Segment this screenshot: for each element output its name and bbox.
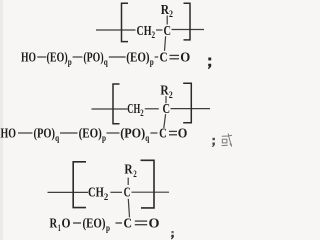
wire dash L1d (155, 56, 159, 58)
svg-text:C: C (163, 101, 171, 116)
label R2 S1 (161, 2, 174, 19)
bracket close S1 (184, 3, 191, 40)
label CH2 S1 (137, 23, 156, 40)
label CH2 S2 (127, 101, 144, 118)
svg-text:C: C (124, 185, 131, 200)
svg-text:q: q (104, 57, 108, 67)
wire R2-C bond S1 (166, 16, 168, 25)
wire C-right bond S3 (132, 191, 170, 193)
label R2 S2 (160, 83, 173, 100)
label semicolon L2 (213, 138, 215, 140)
svg-text:(EO): (EO) (47, 50, 68, 66)
wire dash L1b (73, 56, 83, 58)
svg-text:CH: CH (137, 23, 152, 38)
wire C-down bond S2 (164, 114, 166, 128)
svg-text:p: p (150, 57, 154, 67)
svg-text:C: C (164, 23, 172, 38)
wire CH2-C bond S2 (145, 108, 159, 110)
label R2 S3 (124, 161, 137, 179)
wire dash L1a (37, 56, 46, 58)
wire R2-C bond S3 (127, 178, 129, 185)
wire double bond L2 (169, 130, 177, 132)
label semicolon L1 (208, 58, 211, 61)
svg-text:p: p (106, 223, 110, 233)
svg-text:p: p (68, 57, 72, 67)
svg-text:CH: CH (88, 185, 104, 200)
wire dash L1c (109, 56, 126, 58)
wire dash L2a (18, 132, 33, 134)
wire double bond L1 (170, 54, 180, 56)
svg-text:2: 2 (152, 30, 156, 40)
svg-text:HO: HO (21, 50, 36, 65)
svg-text:C: C (159, 126, 167, 141)
svg-text:2: 2 (169, 9, 173, 19)
svg-text:(EO): (EO) (83, 216, 106, 232)
svg-text:R: R (124, 161, 132, 176)
wire dash L3a (73, 222, 81, 224)
svg-text:O: O (149, 216, 160, 231)
svg-text:R: R (50, 216, 58, 231)
wire dash L2b (60, 132, 78, 134)
svg-text:HO: HO (1, 126, 17, 141)
wire C-down bond S3 (128, 199, 129, 218)
svg-text:R: R (161, 2, 169, 17)
label semicolon L3 (171, 231, 173, 233)
wire C-right bond S1 (172, 29, 205, 31)
wire dash L2c (107, 132, 120, 134)
bracket open S1 (122, 3, 129, 41)
bracket close S2 (183, 83, 191, 123)
svg-text:R: R (160, 83, 168, 98)
left edge scan band (0, 0, 3, 240)
svg-text:O: O (180, 50, 190, 65)
svg-text:q: q (145, 133, 149, 143)
svg-text:(EO): (EO) (79, 126, 102, 142)
svg-text:C: C (160, 50, 168, 65)
bracket open S2 (113, 84, 120, 124)
wire double bond L3 (135, 220, 147, 222)
svg-text:(PO): (PO) (83, 50, 103, 66)
wire lead bond S1 (96, 29, 136, 31)
svg-text:(EO): (EO) (126, 50, 149, 66)
wire C-right bond S2 (171, 108, 211, 110)
svg-text:2: 2 (104, 192, 109, 202)
svg-text:(PO): (PO) (120, 126, 145, 142)
svg-text:p: p (102, 133, 106, 143)
wire lead bond S2 (92, 108, 128, 110)
wire CH2-C bond S1 (156, 29, 163, 31)
wire dash L2d (150, 132, 157, 134)
label CH2 S3 (88, 185, 109, 202)
bracket open S3 (73, 162, 86, 208)
wire lead bond S3 (48, 191, 89, 193)
wire C-down bond S1 (165, 36, 166, 51)
wire dash L3b (116, 222, 123, 224)
svg-text:O: O (178, 126, 188, 141)
wire R2-C bond S2 (165, 96, 167, 103)
svg-text:CH: CH (127, 101, 140, 116)
svg-text:2: 2 (133, 169, 137, 179)
bracket close S3 (141, 160, 155, 208)
svg-text:q: q (55, 133, 59, 143)
svg-text:C: C (124, 216, 133, 231)
wire CH2-C bond S3 (110, 191, 122, 193)
svg-text:2: 2 (140, 108, 144, 118)
svg-text:(PO): (PO) (34, 126, 56, 142)
svg-text:O: O (62, 216, 71, 231)
label character OR (或) L2, clipped at right edge (222, 134, 232, 147)
svg-text:2: 2 (169, 90, 173, 100)
